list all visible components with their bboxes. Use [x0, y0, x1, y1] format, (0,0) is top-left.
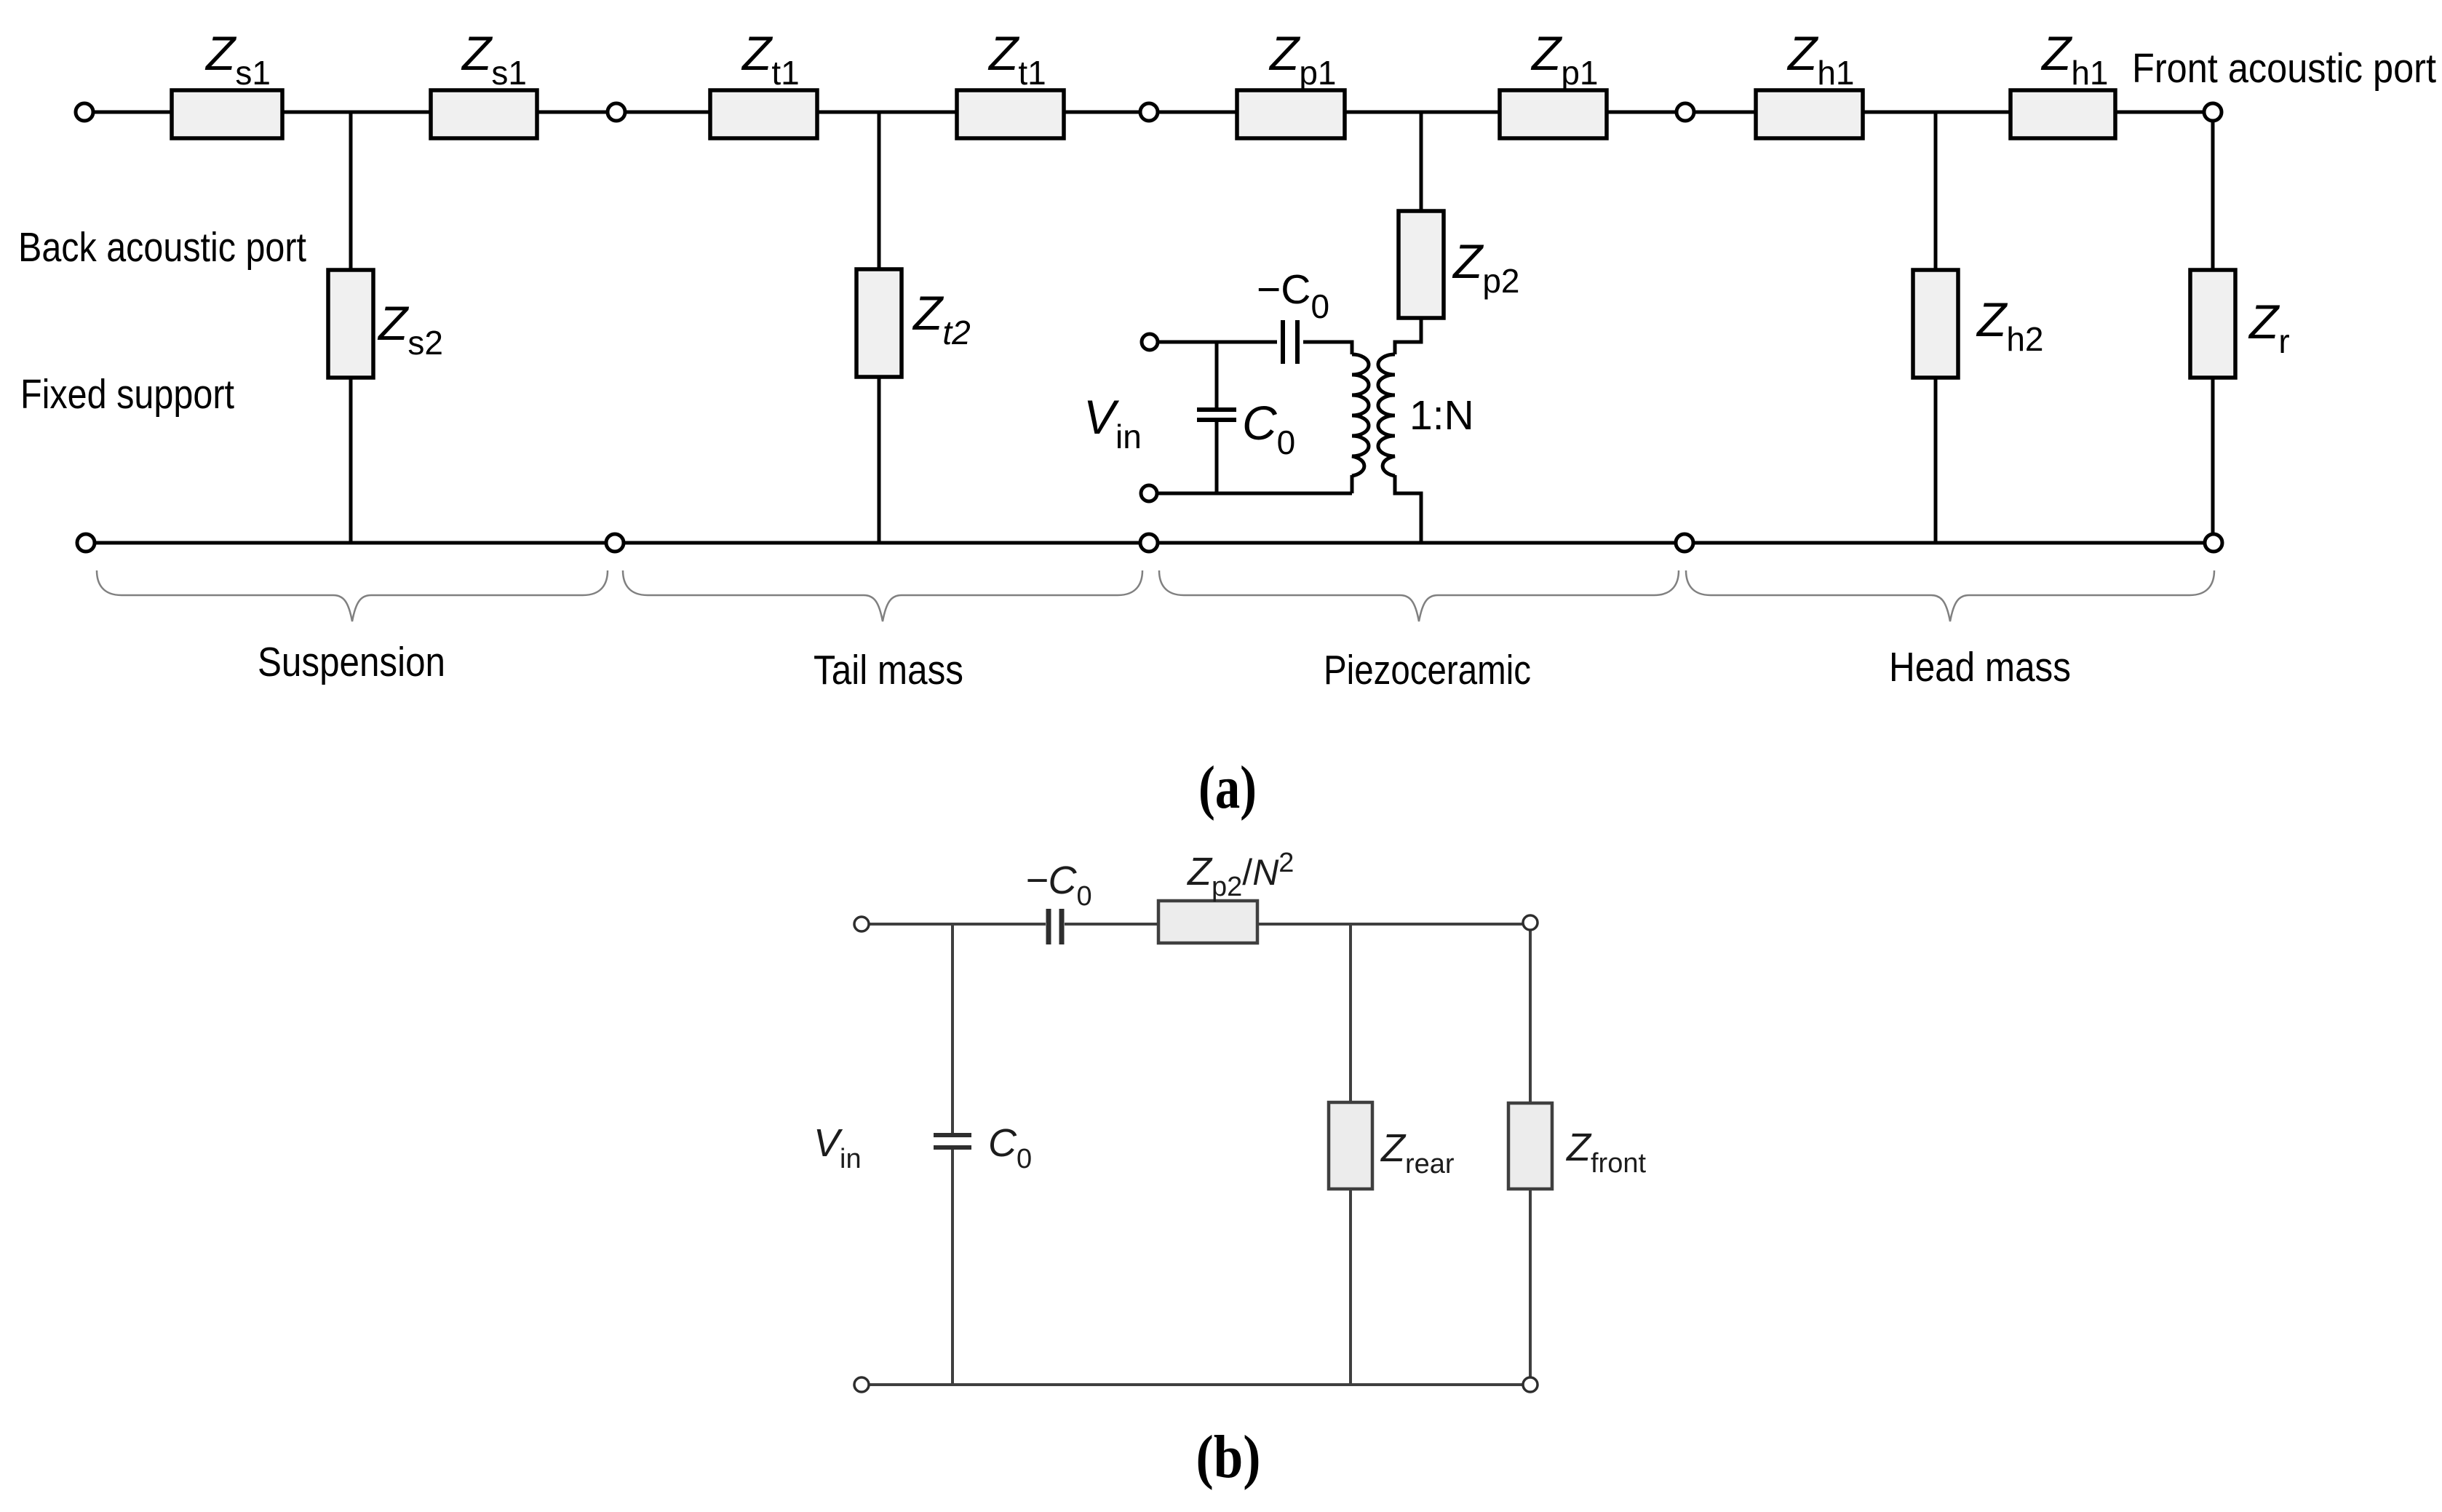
- resistor Zt1 (second): [957, 26, 1064, 138]
- wire bottom rail: [95, 541, 2205, 545]
- svg-text:Fixed support: Fixed support: [20, 371, 234, 418]
- svg-text:Front acoustic port: Front acoustic port: [2132, 45, 2436, 92]
- wire b top rail segment 1: [868, 923, 1046, 926]
- wire b C0 branch lower: [951, 1147, 954, 1385]
- wire shunt Zt2 branch: [878, 112, 881, 543]
- resistor Zr (shunt): [2190, 270, 2290, 378]
- resistor Zt2 (shunt): [856, 269, 971, 377]
- resistor Zh1 (second): [2011, 26, 2115, 138]
- wire after -C0 cap to transformer primary: [1303, 342, 1352, 354]
- wire C0 shunt upper: [1215, 342, 1219, 410]
- wire Vin bottom lead: [1158, 492, 1352, 496]
- node right bottom terminal: [2205, 534, 2222, 552]
- resistor Zs1 (second): [431, 26, 537, 138]
- wire secondary top jog to Zp2: [1395, 318, 1421, 354]
- wire b C0 branch upper: [951, 924, 954, 1135]
- wire b Zfront branch: [1529, 929, 1532, 1378]
- node left top terminal: [76, 103, 93, 121]
- wire b bottom rail: [868, 1383, 1524, 1386]
- svg-text:(b): (b): [1196, 1423, 1261, 1491]
- wire secondary bottom jog to bottom rail: [1395, 475, 1421, 543]
- svg-text:Head mass: Head mass: [1889, 644, 2071, 691]
- capacitor C0 (shunt, diagram a): [1197, 410, 1236, 420]
- node left bottom terminal: [77, 534, 95, 552]
- wire C0 shunt lower: [1215, 420, 1219, 493]
- source Vin loop wires: [1158, 318, 1421, 543]
- wire shunt Zs2 branch: [349, 112, 353, 543]
- svg-text:Piezoceramic: Piezoceramic: [1324, 647, 1531, 693]
- resistor Zh1 (first): [1756, 26, 1863, 138]
- node C top rail: [1677, 103, 1694, 121]
- brace head mass: [1686, 570, 2214, 621]
- capacitor -C0 (series, diagram a): [1283, 320, 1297, 364]
- wire b top rail segment 3: [1257, 923, 1524, 926]
- brace piezoceramic: [1159, 570, 1679, 621]
- resistor Zrear: [1329, 1102, 1455, 1189]
- resistor Zp1 (first): [1237, 26, 1345, 138]
- transformer T1 secondary winding: [1378, 354, 1395, 476]
- resistor Zp1 (second): [1500, 26, 1607, 138]
- wire right edge Zr branch: [2211, 120, 2215, 535]
- node b bottom-left terminal: [854, 1377, 869, 1392]
- node b top-left terminal: [854, 917, 869, 931]
- resistor Zp2 (shunt): [1399, 211, 1520, 318]
- wire Vin top lead: [1158, 341, 1277, 344]
- svg-text:1:N: 1:N: [1409, 392, 1474, 439]
- transformer T1 primary winding: [1352, 354, 1369, 476]
- wire shunt Zh2 branch: [1934, 112, 1938, 543]
- svg-text:(a): (a): [1198, 754, 1257, 821]
- brace suspension: [97, 570, 608, 621]
- resistor Zp2/N^2: [1158, 848, 1294, 943]
- capacitor -C0 (series, diagram b): [1049, 909, 1062, 944]
- node E bottom rail: [1140, 534, 1158, 552]
- node F bottom rail: [1676, 534, 1693, 552]
- resistor Zh2 (shunt): [1913, 270, 2044, 378]
- node Vin top terminal: [1142, 334, 1158, 350]
- node D bottom rail: [606, 534, 624, 552]
- wire b top rail segment 2: [1065, 923, 1158, 926]
- resistor Zt1 (first): [710, 26, 817, 138]
- node b bottom-right terminal: [1523, 1377, 1538, 1392]
- node front acoustic port terminal: [2204, 103, 2222, 121]
- resistor Zs1 (first): [172, 26, 282, 138]
- node A top rail: [608, 103, 625, 121]
- wire shunt Zp2 branch upper: [1420, 112, 1423, 318]
- capacitor C0 (shunt, diagram b): [934, 1135, 971, 1147]
- wire b Zrear branch: [1349, 924, 1352, 1385]
- resistor Zfront: [1508, 1103, 1646, 1189]
- node B top rail: [1140, 103, 1158, 121]
- node b top-right terminal: [1523, 915, 1538, 930]
- svg-text:Back acoustic port: Back acoustic port: [18, 224, 306, 271]
- node Vin bottom terminal: [1141, 485, 1157, 501]
- brace tail mass: [623, 570, 1142, 621]
- svg-text:Suspension: Suspension: [258, 639, 445, 685]
- svg-text:Tail mass: Tail mass: [814, 647, 963, 693]
- wire primary coil bottom stem: [1351, 475, 1354, 493]
- wire top rail: [93, 111, 2205, 114]
- resistor Zs2 (shunt): [328, 270, 443, 378]
